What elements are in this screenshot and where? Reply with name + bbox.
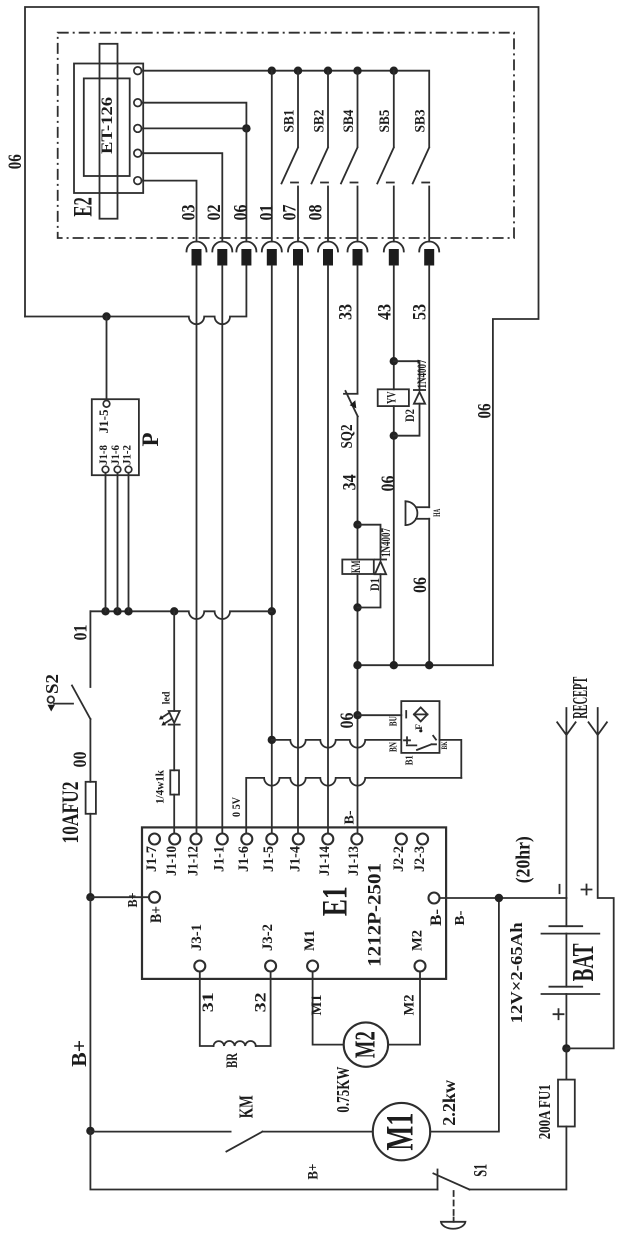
svg-text:SB5: SB5 [377,110,393,133]
pin J1-5 of E1 [266,834,277,845]
switch S1 emergency [433,1170,469,1190]
wire battery minus lead [565,898,567,926]
connector P pin J1-2 [125,466,132,473]
svg-text:06: 06 [337,713,358,729]
junction 06/B1 BU [353,711,361,719]
wire M2 pin to motor M2 [388,972,420,1045]
wire resistor to J1-10 [173,795,175,834]
module E2 body [74,64,143,194]
wire B1 BK riser [440,740,462,778]
connector plug X07 [288,242,308,266]
pin J1-4 of E1 [293,834,304,845]
wire battery+ to FU1 [565,1048,567,1079]
pin J2-3 of E1 [417,834,428,845]
wire 07 to J1-4 [297,266,299,834]
terminal E2 pin 5 [134,177,142,185]
pin J1-13 of E1 [351,834,362,845]
svg-text:00: 00 [70,752,91,768]
svg-text:J1-2: J1-2 [121,445,133,465]
svg-text:BK: BK [440,741,449,750]
wire 0 5V J1-6 to B1 BK (hops over 01,07,08,B-) [246,778,461,834]
module E2 mounting strip [100,44,118,219]
wire 06 from border to plug (hops over 03,02) [25,266,246,325]
pin J1-1 of E1 [217,834,228,845]
wire 02 to J1-1 [221,266,223,834]
svg-text:M1: M1 [309,995,325,1016]
wire HA to node 06 [428,519,430,665]
switch SQ2 [344,391,358,417]
wire E2 pin3 to node 06 [142,127,247,129]
svg-text:KM: KM [236,1095,258,1118]
svg-text:(20hr): (20hr) [513,836,535,883]
wire B+ to E1 [90,896,149,898]
label + recept [582,885,592,895]
connector plug X53 [419,242,439,266]
svg-text:08: 08 [306,205,327,221]
motor M2 pump [344,1022,388,1066]
junction node 06 / J1-5 feed [102,312,110,320]
enclosure E2 boundary (dash-dot) [58,33,514,238]
svg-text:1/4w1k: 1/4w1k [154,769,166,804]
wire 03 to J1-12 [196,266,198,834]
svg-text:led: led [161,691,173,704]
wire 53 from plug to HA [428,266,430,508]
pin J3-1 of E1 [194,961,205,972]
connector plug X03 [187,242,207,266]
wire battery mid [565,934,567,987]
wire J1-8 to 01 row [105,473,107,612]
svg-text:06: 06 [231,205,252,221]
junction 01 row x105.5 [101,607,109,615]
connector plug X01 [262,242,282,266]
switch S2 key switch [48,686,91,720]
svg-text:E2: E2 [69,197,98,217]
resistor R1 1/4w 1k [170,770,179,794]
junction bus x357.5 [353,67,361,75]
controller E1 body [142,827,446,979]
switch SB1 [282,71,299,242]
svg-text:M2: M2 [402,995,418,1016]
switch SB3 [413,148,430,242]
pin J1-6 of E1 [241,834,252,845]
pin M1 of E1 [307,961,318,972]
wire 00 S2 to FU2 [89,719,91,782]
svg-text:31: 31 [200,992,217,1012]
wire net 01 row (hops over 03,02) [90,611,271,619]
svg-text:06: 06 [410,577,431,593]
svg-text:BAT: BAT [565,943,600,981]
wire E2 pin4 (02) to connector X02 [142,153,223,241]
junction B-/M1 [495,894,503,902]
receptacle RECEPT contact 2 [566,708,613,1048]
battery BAT cell1 [542,926,600,933]
connector P pin J1-8 [102,466,109,473]
junction 06/HA branch [425,661,433,669]
svg-text:B-: B- [452,911,467,926]
horn HA [406,501,430,525]
connector plug X08 [318,242,338,266]
svg-text:J1-10: J1-10 [164,846,180,876]
svg-text:F: F [415,724,425,730]
diode D1 1N4007 [358,525,387,608]
pin J2-2 of E1 [396,834,407,845]
svg-text:06: 06 [474,404,495,419]
wire 08 to J1-14 [327,266,329,834]
fuse FU1 200A [558,1080,575,1127]
switch SB4 [341,71,358,242]
connector P pin J1-6 [114,466,121,473]
wire E2 pin5 (03) to connector X03 [142,181,197,242]
svg-text:J2-2: J2-2 [391,846,407,872]
wire battery plus lead [565,994,567,1048]
svg-text:HA: HA [432,509,442,517]
terminal E2 pin 3 [134,125,142,133]
svg-text:B-: B- [428,909,445,926]
svg-text:B+: B+ [125,893,140,908]
wire YV to node 06 [393,406,395,665]
junction 01 row x174.2 [170,607,178,615]
svg-text:B1: B1 [404,755,415,765]
junction bus x393.8 [390,67,398,75]
svg-text:J3-1: J3-1 [189,924,205,951]
wire M1 to B- riser [430,898,499,1132]
wire E2 pin2 to node 06 [142,103,247,129]
svg-text:D1: D1 [367,578,382,591]
terminal E2 pin 1 [134,67,142,75]
junction 01/B1 row [268,736,276,744]
junction B+/KM [86,1127,94,1135]
svg-text:B+: B+ [148,906,165,923]
wire B+ rail down [89,897,91,1131]
svg-text:J1-6: J1-6 [110,445,122,465]
meter B1 gauge diamond [414,707,428,721]
meter B1 minus mark [405,711,407,718]
wire net 06 bottom row [358,664,493,666]
switch SB5 [377,71,394,242]
wire FU2 to B+ node [89,814,91,897]
svg-text:34: 34 [339,474,360,490]
svg-text:0 5V: 0 5V [231,796,243,817]
svg-text:BU: BU [388,716,399,726]
motor M1 traction [373,1103,430,1160]
svg-text:32: 32 [253,992,270,1012]
wire B- from E1 to battery [440,897,567,899]
svg-text:1N4007: 1N4007 [379,528,393,557]
pin J1-12 of E1 [191,834,202,845]
wire 01 to LED [173,611,175,711]
wire 33 from plug to SQ2 [357,266,359,394]
svg-text:J1-13: J1-13 [346,846,362,876]
wire 01 to J1-5 [271,266,273,834]
S1 mushroom head [441,1218,466,1229]
pin J1-14 of E1 [322,834,333,845]
svg-text:M2: M2 [409,930,425,951]
label + battery [554,1009,564,1019]
svg-text:J1-5: J1-5 [261,846,277,872]
svg-text:SB1: SB1 [281,110,297,133]
junction bus x271.8 [268,67,276,75]
svg-text:33: 33 [336,304,357,320]
svg-text:B+: B+ [305,1164,321,1180]
connector plug X02 [212,242,232,266]
battery BAT cell2 [542,987,600,994]
connector P body [92,399,139,475]
wire M1 pin to motor M2 [313,972,344,1045]
pin J1-10 of E1 [169,834,180,845]
junction 01 row x128.5 [124,607,132,615]
svg-text:RECEPT: RECEPT [568,677,592,719]
wire 06 down to connector X06 [245,128,247,241]
svg-text:J1-4: J1-4 [288,846,304,872]
svg-text:0.75KW: 0.75KW [333,1066,353,1112]
svg-text:J1-7: J1-7 [144,846,160,872]
wire 01 to S2 [89,611,91,687]
junction 01/row1 [268,607,276,615]
svg-text:2.2kw: 2.2kw [439,1079,459,1125]
svg-text:SB4: SB4 [341,109,357,132]
label - recept [559,885,561,893]
wire 34 from SQ2 to KM coil [357,417,359,560]
LED indicator [159,711,180,726]
svg-text:J1-14: J1-14 [317,846,333,876]
svg-text:43: 43 [375,304,396,320]
junction bus x328 [324,67,332,75]
junction 43/D2 [390,357,398,365]
svg-text:J1-5: J1-5 [97,410,111,434]
S1 actuator link (dashed) [453,1191,455,1218]
relay coil KM [342,560,374,575]
pin B- of E1 [429,893,440,904]
diode D2 1N4007 [394,361,425,436]
svg-text:M1: M1 [378,1113,421,1151]
junction KM/D1 cathode [353,603,361,611]
connector plug X33 [348,242,368,266]
meter B1 internal switch [407,736,436,750]
wire B+ rail to bottom [90,1131,437,1190]
junction bus x298 [294,67,302,75]
contact KM (main) [90,1132,372,1152]
pin B+ of E1 [149,892,160,903]
wire bus 01 from E2 pin1 to SB3 [142,71,430,147]
svg-text:ET-126: ET-126 [99,97,116,154]
junction 01 row x117.5 [113,607,121,615]
svg-text:07: 07 [280,204,301,220]
svg-text:M2: M2 [350,1031,381,1058]
junction battery+/FU1 [562,1044,570,1052]
wire 01 from bus to connector X01 [271,71,273,242]
svg-text:02: 02 [204,205,225,221]
wire 01 to B1 BN (hops over 07,08,B-) [272,740,402,748]
svg-text:J1-1: J1-1 [212,846,228,872]
svg-text:1N4007: 1N4007 [415,360,429,389]
junction YV/D2 anode [390,432,398,440]
wire LED to resistor [173,725,175,771]
connector plug X43 [384,242,404,266]
meter B1 body [401,701,439,753]
svg-text:J3-2: J3-2 [260,924,276,951]
svg-text:SQ2: SQ2 [337,425,356,449]
svg-text:S1: S1 [471,1164,492,1177]
svg-text:01: 01 [257,205,278,221]
svg-text:J2-3: J2-3 [412,846,428,872]
junction 34/D1 anode [353,521,361,529]
svg-text:J1-8: J1-8 [98,445,110,465]
svg-text:SB2: SB2 [311,110,327,133]
wire FU1 to S1 [470,1127,567,1190]
svg-text:12V×2-65Ah: 12V×2-65Ah [507,922,526,1024]
connector P pin J1-5 [103,401,110,408]
svg-text:10AFU2: 10AFU2 [58,782,83,844]
pin J3-2 of E1 [265,961,276,972]
svg-text:M1: M1 [302,930,318,951]
svg-text:E1: E1 [314,886,354,916]
meter B1 plus mark [404,737,410,743]
svg-text:03: 03 [179,205,200,221]
svg-text:J1-6: J1-6 [236,846,252,872]
wire J1-2 to 01 row [128,473,130,612]
pin M2 of E1 [415,961,426,972]
svg-text:200A FU1: 200A FU1 [535,1084,554,1139]
wire 43 from plug to YV [393,266,395,390]
svg-text:06: 06 [378,476,399,492]
svg-text:SB3: SB3 [413,110,429,133]
connector plug X06 [236,242,256,266]
wire J1-5 from junction to connector P [106,317,108,401]
svg-text:KM: KM [349,560,363,573]
junction 06/YV branch [390,661,398,669]
svg-text:01: 01 [70,625,91,641]
svg-text:B+: B+ [67,1040,91,1067]
switch SB2 [312,71,329,242]
solenoid coil YV [378,389,409,406]
svg-text:06: 06 [5,154,26,169]
svg-text:YV: YV [385,391,399,404]
fuse FU2 10A [86,782,96,814]
pin J1-7 of E1 [149,834,160,845]
svg-text:53: 53 [410,304,431,320]
svg-text:S2: S2 [42,674,62,694]
svg-text:B-: B- [342,811,357,825]
module E2 inner frame [84,78,130,176]
junction B+/E1 [86,893,94,901]
svg-text:J1-12: J1-12 [185,846,201,876]
terminal E2 pin 4 [134,149,142,157]
inductor BR [214,1041,256,1046]
svg-text:BR: BR [224,1053,241,1068]
wire net 06 outer border (left/top/right) [25,7,539,665]
wire J3-1 to BR [200,972,214,1047]
wire BR to J3-2 [256,972,271,1047]
svg-text:1212P-2501: 1212P-2501 [364,863,385,967]
junction node 06 E2 [242,124,250,132]
svg-text:D2: D2 [402,409,417,422]
svg-text:P: P [138,433,163,447]
wire KM coil to node 06 [357,574,359,834]
wire 06 to B1 BU [358,714,402,716]
receptacle RECEPT contact 1 [557,708,575,898]
svg-text:BN: BN [388,742,399,752]
terminal E2 pin 2 [134,99,142,107]
junction 06/KM branch [353,661,361,669]
wire J1-6 to 01 row [117,473,119,612]
